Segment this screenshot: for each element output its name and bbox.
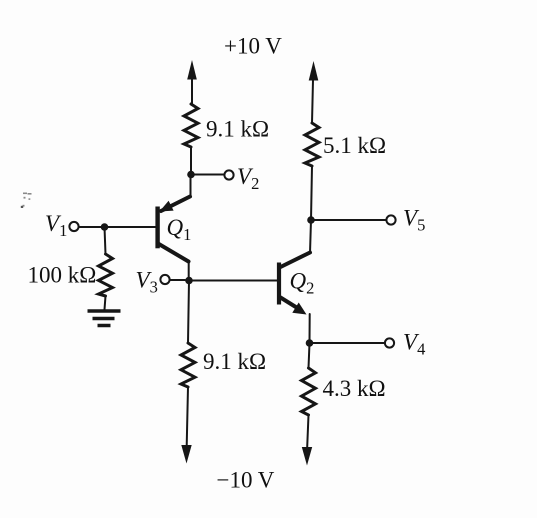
wire 9.1k lower to -10V arrow (187, 387, 188, 446)
power arrow up left (+10V) (187, 60, 197, 104)
svg-text:+10 V: +10 V (224, 34, 282, 59)
svg-text:−10 V: −10 V (217, 468, 275, 493)
wire 100k to ground (105, 296, 106, 310)
terminal V3 (160, 275, 169, 284)
svg-text:Q2: Q2 (290, 269, 315, 298)
transistor Q2 emitter arrow (NPN) (292, 303, 306, 315)
wire V4 node to terminal (310, 342, 386, 344)
supply arrow down right (-10V) (302, 447, 312, 466)
resistor R 9.1k upper (184, 104, 198, 147)
wire V3 node down to 9.1k lower (188, 281, 189, 344)
node V4 junction (306, 339, 314, 347)
resistor R 4.3k (302, 368, 316, 415)
transistor Q1 emitter lead (161, 197, 190, 212)
node V2 junction (187, 171, 195, 179)
transistor Q2 base bar (277, 263, 281, 305)
svg-text:9.1 kΩ: 9.1 kΩ (206, 117, 269, 142)
wire node down to Q1 emitter (190, 175, 192, 197)
terminal V2 (224, 170, 233, 179)
wire node to V2 terminal (191, 174, 224, 176)
svg-text:Q1: Q1 (167, 215, 192, 244)
wire V5 node to terminal (311, 219, 386, 221)
terminal V5 (386, 215, 395, 224)
node V5 junction (307, 216, 315, 224)
svg-text:V2: V2 (237, 164, 259, 193)
resistor R 5.1k (305, 123, 319, 166)
transistor Q1 base bar (155, 207, 159, 249)
wire V1 to Q1 base (79, 226, 156, 228)
wire 5.1k to V5 node (311, 166, 312, 220)
node V1 junction (101, 223, 109, 231)
power arrow up right (+10V) (309, 61, 319, 123)
ground (88, 311, 121, 326)
terminal V1 (69, 222, 78, 231)
transistor Q2 emitter lead (281, 298, 300, 310)
scan specks (21, 193, 32, 209)
node V3 junction (185, 277, 193, 285)
transistor Q2 collector lead (281, 253, 311, 268)
wire Q1 collector to V3 node (188, 261, 190, 281)
svg-text:9.1 kΩ: 9.1 kΩ (203, 349, 266, 374)
wire V3 terminal (170, 279, 185, 281)
svg-text:V5: V5 (403, 206, 425, 235)
svg-text:V4: V4 (403, 330, 425, 359)
transistor Q1 collector lead (158, 244, 189, 262)
resistor R 9.1k lower (181, 343, 195, 387)
svg-text:V3: V3 (136, 268, 158, 297)
transistor Q1 emitter arrow (PNP) (160, 201, 174, 212)
wire Q2 emitter to V4 node (309, 314, 311, 343)
svg-text:V1: V1 (45, 211, 67, 240)
wire resistor to V2 node (190, 147, 192, 175)
supply arrow down left (-10V) (181, 445, 191, 464)
wire 4.3k to -10V arrow (307, 415, 308, 447)
wire V4 node down to 4.3k (309, 343, 310, 368)
wire V3 node to Q2 base (189, 280, 277, 282)
svg-text:4.3 kΩ: 4.3 kΩ (323, 376, 386, 401)
wire V5 node down to Q2 collector (310, 220, 311, 253)
svg-text:100 kΩ: 100 kΩ (28, 263, 97, 288)
svg-text:5.1 kΩ: 5.1 kΩ (323, 133, 386, 158)
resistor R 100k (99, 254, 113, 296)
wire junction down to 100k (105, 227, 106, 254)
terminal V4 (385, 338, 394, 347)
